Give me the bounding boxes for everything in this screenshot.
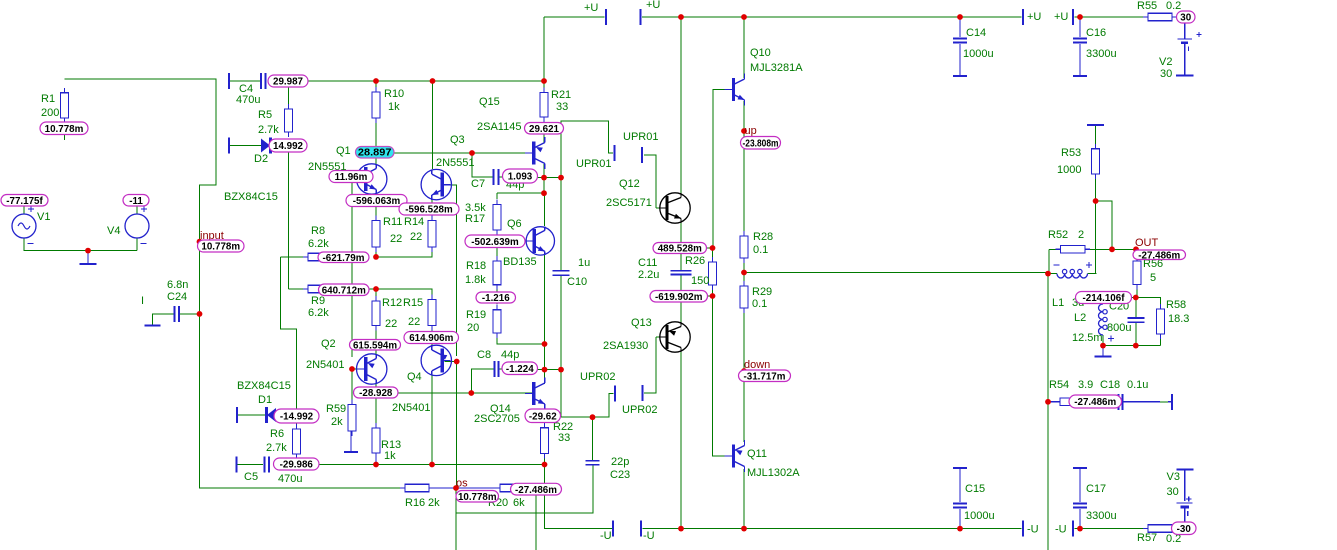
wire R17 bottom to base (496, 230, 498, 241)
wire R21 bottom to oval (543, 117, 545, 124)
label R59 (326, 403, 346, 415)
wire R17 top wire (497, 192, 544, 194)
wire Q1 collector node to Q15 base (376, 152, 533, 154)
measurement V Q1b 11.96m (329, 171, 373, 184)
svg-text:-596.528m: -596.528m (405, 205, 453, 216)
ground R59 ground (344, 431, 358, 452)
svg-text:1k: 1k (388, 101, 400, 113)
label 470u (278, 473, 302, 485)
node C20 gnd dot (1133, 343, 1139, 349)
svg-text:2SA1930: 2SA1930 (603, 340, 648, 352)
svg-text:Q1: Q1 (336, 145, 351, 157)
measurement V Q1e -596.063m (346, 195, 407, 208)
svg-text:R54: R54 (1049, 379, 1069, 391)
wire R17 top lead (496, 193, 498, 199)
svg-text:470u: 470u (236, 94, 260, 106)
resistor R26 (709, 257, 717, 290)
resistor R17 (493, 200, 501, 236)
measurement V R9 640.712m (319, 284, 370, 296)
wire Q12 emitter to C11 (680, 223, 682, 270)
svg-text:44p: 44p (501, 349, 519, 361)
svg-text:R26: R26 (685, 255, 705, 267)
svg-text:R19: R19 (466, 309, 486, 321)
wire R26 node to Q11 base (713, 296, 733, 456)
wire R5 top lead (288, 86, 290, 104)
label 2 (1078, 229, 1084, 241)
resistor R28 (740, 231, 748, 263)
label R57 (1137, 532, 1157, 544)
svg-text:MJL3281A: MJL3281A (750, 62, 803, 74)
svg-text:MJL1302A: MJL1302A (747, 467, 800, 479)
svg-text:640.712m: 640.712m (322, 285, 366, 296)
wire zobel ground wire (1103, 345, 1161, 347)
svg-text:33: 33 (556, 101, 568, 113)
resistor R21 (540, 88, 548, 123)
minus sign L1 - (1053, 264, 1059, 266)
wire C10 upper lead (560, 178, 562, 270)
measurement V Q13e -619.902m (650, 291, 708, 303)
wire Q6 emitter down (544, 255, 546, 372)
label 0.2 (1166, 0, 1181, 12)
svg-text:0.2: 0.2 (1166, 0, 1181, 12)
wire C20 bottom lead (1135, 323, 1137, 346)
resistor R57 (1143, 525, 1177, 533)
measurement V V3 -30 (1172, 522, 1197, 535)
node node177 dot R (558, 175, 564, 181)
label 2SC5171 (606, 197, 652, 209)
svg-text:+U: +U (646, 0, 660, 11)
plus sign L1 + (1086, 262, 1092, 268)
wire C8 left drop (471, 369, 494, 393)
wire L2 bottom lead (1102, 335, 1104, 346)
label R19 (466, 309, 486, 321)
svg-text:33: 33 (558, 432, 570, 444)
wire R11 bottom (375, 247, 377, 257)
svg-text:R21: R21 (551, 89, 571, 101)
svg-text:R10: R10 (384, 88, 404, 100)
transistor Q15 2SA1145 (525, 137, 545, 169)
label 18.3 (1168, 313, 1189, 325)
wire Q2 collector line to Q14 base (376, 392, 533, 394)
wire R26 top lead (712, 248, 714, 257)
svg-text:R11: R11 (383, 216, 402, 228)
capacitor C17 3300u (1073, 504, 1087, 508)
wire C10 top net (560, 133, 562, 178)
wire L1 right lead (1088, 273, 1097, 275)
svg-text:-30: -30 (1177, 524, 1192, 535)
terminal C18 terminal (1171, 394, 1173, 410)
label 2.7k (266, 442, 287, 454)
svg-text:20: 20 (467, 322, 479, 334)
svg-text:5: 5 (1150, 272, 1156, 284)
label 44p (506, 179, 524, 191)
svg-text:2.7k: 2.7k (258, 124, 279, 136)
wire C4 lead (229, 80, 260, 82)
transistor Q11 MJL1302A (725, 440, 745, 472)
wire V4 top lead (136, 204, 138, 214)
svg-text:R29: R29 (752, 286, 772, 298)
wire Q4 base wire (445, 361, 457, 363)
resistor R1 (60, 88, 68, 123)
transistor Q3 2N5551 (421, 169, 451, 199)
label 22p (611, 456, 629, 468)
label 33 (556, 101, 568, 113)
measurement V L2 -214.106f (1076, 292, 1132, 305)
wire os node down (456, 466, 593, 513)
wire C5 line (274, 464, 545, 466)
label 2N5551 (436, 157, 475, 169)
label 3.9 (1078, 379, 1093, 391)
svg-text:C23: C23 (610, 469, 630, 481)
svg-text:Q4: Q4 (407, 371, 422, 383)
svg-text:22p: 22p (611, 456, 629, 468)
label 2SC2705 (474, 413, 520, 425)
svg-text:R12: R12 (382, 297, 402, 309)
R16 right lead (429, 487, 456, 489)
wire R9 node line (289, 289, 432, 297)
svg-text:0.1u: 0.1u (1127, 379, 1148, 391)
wire R52 left lead (1049, 248, 1060, 250)
wire R19 top (496, 302, 498, 304)
svg-text:up: up (745, 125, 757, 137)
node L2 gnd dot (1100, 343, 1106, 349)
wire Q10 base net (712, 89, 714, 248)
wire Q12 base lead (656, 207, 666, 209)
svg-text:0.1: 0.1 (752, 298, 767, 310)
node zobel node dot (1133, 295, 1139, 301)
wire R20 oval stub (524, 487, 526, 489)
wire C20 top lead (1135, 298, 1137, 318)
svg-text:18.3: 18.3 (1168, 313, 1189, 325)
label 2N5401 (306, 359, 345, 371)
capacitor C8 44p (495, 361, 499, 377)
capacitor C18 0.1u (1119, 394, 1123, 410)
transistor Q1 2N5551 (357, 164, 387, 194)
svg-text:Q2: Q2 (321, 338, 336, 350)
wire R56 top lead (1136, 249, 1138, 256)
svg-text:-77.175f: -77.175f (6, 196, 43, 207)
svg-text:R53: R53 (1061, 147, 1081, 159)
node rail dot Q10 (741, 14, 747, 20)
diode zener D2 BZX84C15 (261, 138, 271, 154)
node OUT rail dot (741, 270, 747, 276)
transistor Q12 2SC5171 (659, 193, 690, 223)
wire C10 lower lead (560, 276, 562, 417)
resistor R11 (372, 216, 380, 253)
label 22 (385, 318, 397, 330)
node ground dot (85, 248, 91, 254)
wire R10 bottom to Q1 collector (375, 120, 377, 164)
node rail dot Q12 (678, 14, 684, 20)
wire Q3 emitter to R14 (431, 200, 433, 218)
svg-text:R58: R58 (1166, 299, 1186, 311)
label L1 (1052, 297, 1064, 309)
svg-text:3300u: 3300u (1086, 48, 1117, 60)
label 2k (331, 416, 343, 428)
wire OUT rail (744, 272, 1048, 274)
label 200 (41, 107, 59, 119)
svg-text:6.2k: 6.2k (308, 307, 329, 319)
source V1 sine source (12, 214, 36, 238)
svg-text:-27.486m: -27.486m (1074, 397, 1116, 408)
wire Q11 collector to -U (743, 469, 745, 529)
terminal C24 terminal (145, 324, 161, 326)
svg-text:Q6: Q6 (507, 218, 522, 230)
resistor R10 (372, 87, 380, 123)
wire 29.621 node to UPR01 (561, 121, 613, 153)
svg-text:R6: R6 (270, 428, 284, 440)
wire R8 node line (376, 249, 432, 257)
node rail dot C14 (957, 14, 963, 20)
svg-text:14.992: 14.992 (273, 141, 304, 152)
wire R19 bottom (497, 334, 545, 344)
wire -U rail right segment (1075, 528, 1144, 530)
label BD135 (503, 256, 537, 268)
node up dot (741, 128, 747, 134)
transistor Q14 2SC2705 (525, 378, 545, 410)
svg-text:R17: R17 (465, 213, 485, 225)
node R53 node dot (1093, 198, 1099, 204)
label R10 (384, 88, 404, 100)
svg-text:UPR01: UPR01 (576, 158, 611, 170)
wire R8 staircase (281, 257, 297, 411)
wire R53 node L (1096, 201, 1112, 249)
wire R57 oval stub (1172, 528, 1180, 530)
label C5 (244, 471, 258, 483)
wire Q10 emitter to up node (743, 101, 745, 137)
wire R53 node riser (1095, 201, 1097, 274)
svg-text:R8: R8 (311, 225, 325, 237)
wire Q13 base to UPR02 (644, 337, 656, 393)
svg-text:615.594m: 615.594m (353, 340, 397, 351)
label R53 (1061, 147, 1081, 159)
label net os (456, 478, 468, 490)
label -U (643, 530, 655, 542)
svg-text:6k: 6k (513, 497, 525, 509)
ground zobel ground (1095, 346, 1112, 357)
measurement V OUT -27.486m (1133, 250, 1186, 261)
node -U dot C15 (957, 526, 963, 532)
label R17 (465, 213, 485, 225)
measurement V C5 -29.986 (274, 458, 320, 471)
wire Q1 base wire (352, 179, 366, 357)
node y81 dot R21 (541, 78, 547, 84)
svg-text:UPR02: UPR02 (580, 371, 615, 383)
svg-text:UPR01: UPR01 (623, 131, 658, 143)
label 6.8n (167, 279, 188, 291)
measurement V Q4e 614.906m (404, 332, 459, 345)
resistor R9 (303, 285, 337, 293)
wire +U rail right segment (1075, 16, 1144, 18)
label C18 (1100, 379, 1120, 391)
wire R9 left lead (289, 288, 303, 290)
resistor R53 (1092, 144, 1100, 179)
svg-text:29.621: 29.621 (529, 124, 560, 135)
measurement V C7 1.093 (503, 169, 538, 183)
wire Q4 base net to os (456, 362, 458, 489)
svg-text:1000: 1000 (1057, 164, 1081, 176)
svg-text:800u: 800u (1107, 322, 1131, 334)
capacitor C15 1000u (953, 504, 967, 508)
wire R18 bottom (496, 285, 498, 293)
measurement V D2 14.992 (269, 139, 307, 152)
capacitor C20 800u (1127, 318, 1144, 322)
svg-text:-14.992: -14.992 (280, 412, 314, 423)
resistor R12 (372, 296, 380, 331)
plus sign L2 + (1108, 336, 1114, 342)
measurement V Q6b -502.639m (465, 235, 525, 248)
label D2 (254, 153, 268, 165)
resistor R16 (400, 484, 434, 492)
svg-text:-U: -U (643, 530, 655, 542)
svg-text:0.1: 0.1 (753, 244, 768, 256)
label 1u (578, 257, 590, 269)
source V4 DC source (125, 214, 149, 238)
node 489 node dot (710, 245, 716, 251)
svg-text:614.906m: 614.906m (409, 333, 453, 344)
label Q12 (619, 178, 640, 190)
label R58 (1166, 299, 1186, 311)
label V4 (107, 225, 120, 237)
wire Q6 base wire (497, 240, 534, 242)
wire R55 to +30 oval (1172, 16, 1180, 18)
label 1000u (964, 510, 995, 522)
svg-text:R55: R55 (1137, 0, 1157, 12)
R54 left lead (1048, 401, 1055, 403)
node C24 dot (197, 311, 203, 317)
label R16 (405, 497, 425, 509)
svg-text:C7: C7 (471, 178, 485, 190)
node C8 drop dot (468, 390, 474, 396)
svg-text:-29.62: -29.62 (529, 411, 557, 422)
wire C7 left drop (472, 153, 493, 177)
wire R53 bottom lead (1095, 174, 1097, 201)
label C16 (1086, 27, 1106, 39)
svg-text:2SA1145: 2SA1145 (477, 121, 521, 133)
label Q10 (750, 47, 771, 59)
svg-text:-214.106f: -214.106f (1083, 293, 1126, 304)
label net up (745, 125, 757, 137)
label R6 (270, 428, 284, 440)
transistor Q10 MJL3281A (725, 74, 745, 106)
label V2 (1159, 56, 1172, 68)
wire input drop to C24 and R16 (199, 242, 201, 488)
label 1000u (963, 48, 994, 60)
resistor R54 (1055, 398, 1088, 406)
terminal -U tag 2 bar (640, 521, 642, 537)
terminal UPR02 tag C bar (614, 386, 616, 402)
resistor R55 (1143, 13, 1177, 21)
label 0.1u (1127, 379, 1148, 391)
label Q6 (507, 218, 522, 230)
svg-text:-621.79m: -621.79m (323, 253, 365, 264)
svg-text:L1: L1 (1052, 297, 1064, 309)
measurement V R21 29.621 (525, 123, 564, 135)
label 12.5m (1072, 332, 1103, 344)
wire V3 bottom lead (1184, 524, 1186, 529)
transistor Q6 BD135 (526, 227, 554, 255)
measurement V R18 -1.216 (476, 292, 516, 304)
wire L2 top lead (1102, 298, 1104, 305)
label 22 (408, 316, 420, 328)
svg-text:C18: C18 (1100, 379, 1120, 391)
svg-text:10.778m: 10.778m (458, 492, 497, 503)
label Q11 (747, 448, 767, 460)
measurement V Q14e -29.62 (525, 409, 561, 423)
label I (141, 295, 144, 307)
svg-text:2k: 2k (331, 416, 343, 428)
label R26 (685, 255, 705, 267)
transistor Q4 2N5401 (421, 345, 451, 375)
svg-text:+U: +U (1054, 11, 1068, 23)
label L2 (1074, 312, 1086, 324)
label UPR01 (623, 131, 658, 143)
svg-text:3.9: 3.9 (1078, 379, 1093, 391)
wire C23 top lead (592, 417, 594, 461)
plus sign V4 + (141, 206, 147, 212)
node R19 dot (542, 341, 548, 347)
wire Q3 collector to rail (432, 81, 434, 169)
svg-text:-596.063m: -596.063m (353, 196, 401, 207)
svg-text:-1.224: -1.224 (506, 364, 534, 375)
svg-text:Q15: Q15 (479, 96, 500, 108)
measurement V Q2e 615.594m (350, 340, 401, 352)
wire C23 tag link (593, 394, 614, 418)
svg-text:+U: +U (1027, 11, 1041, 23)
wire Q1 emitter to R11 (375, 194, 377, 218)
label C8 (477, 349, 491, 361)
svg-text:C10: C10 (567, 276, 587, 288)
svg-text:C15: C15 (965, 483, 985, 495)
svg-text:R59: R59 (326, 403, 346, 415)
svg-text:1u: 1u (578, 257, 590, 269)
wire down node to Q11 (743, 381, 745, 442)
label R13 (381, 439, 401, 451)
wire C11 bottom (680, 275, 682, 322)
label net down (744, 359, 770, 371)
C14 lower lead (959, 44, 961, 76)
svg-text:22: 22 (390, 233, 402, 245)
wire Q10 base wire (713, 89, 732, 91)
svg-text:1000u: 1000u (964, 510, 995, 522)
terminal +U tag 3 bar (1022, 9, 1024, 25)
label 6.2k (308, 238, 329, 250)
node R22 bottom dot (542, 462, 548, 468)
label C23 (610, 469, 630, 481)
node Q4 base dot (454, 359, 460, 365)
label 3300u (1086, 48, 1117, 60)
measurement V os 10.778m (456, 491, 499, 503)
label 0.1 (753, 244, 768, 256)
svg-text:-29.986: -29.986 (280, 460, 314, 471)
resistor R22 (541, 423, 549, 459)
inductor L1 3u (1057, 269, 1088, 278)
svg-text:30: 30 (1167, 486, 1179, 498)
wire node177 left (536, 177, 544, 179)
wire R18 top (496, 241, 498, 256)
svg-text:V2: V2 (1159, 56, 1172, 68)
svg-text:R5: R5 (258, 109, 272, 121)
label UPR02 (580, 371, 615, 383)
wire Q13 base lead (656, 336, 666, 338)
label 2.7k (258, 124, 279, 136)
label 30 (1160, 68, 1172, 80)
wire Q2 base wire (352, 368, 366, 370)
measurement V R1 10.778m (40, 122, 88, 135)
label R18 (466, 260, 486, 272)
svg-text:-502.639m: -502.639m (471, 237, 519, 248)
C17 upper lead (1079, 468, 1081, 502)
